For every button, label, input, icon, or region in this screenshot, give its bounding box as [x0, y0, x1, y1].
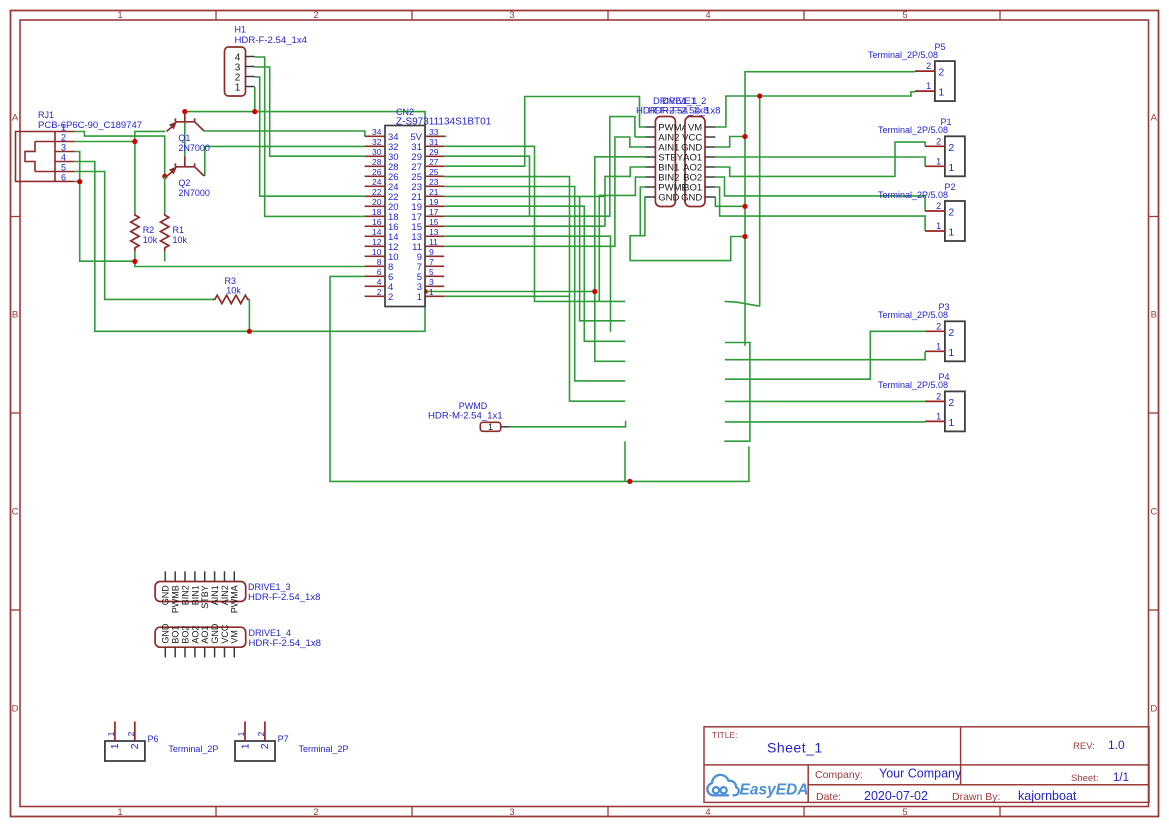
wire BIN1 to riser x605: [605, 167, 646, 226]
wire BIN2 to riser x599: [599, 177, 645, 301]
transistor Q1: [167, 114, 210, 154]
svg-text:10k: 10k: [173, 235, 188, 245]
wire junction to Q1 source: [135, 131, 165, 141]
svg-text:31: 31: [429, 137, 439, 147]
svg-text:2: 2: [948, 142, 954, 154]
wire R1 top lead: [164, 176, 166, 213]
svg-text:7: 7: [429, 257, 434, 267]
wire RJ1.4 to CN2 pin area: [75, 162, 425, 332]
svg-text:H1: H1: [235, 25, 247, 35]
svg-text:Terminal_2P/5.08: Terminal_2P/5.08: [868, 50, 938, 60]
svg-text:3: 3: [61, 142, 66, 152]
wire RJ1.6 net down to R2 bottom: [80, 182, 135, 262]
wire H1.3 to CN2 pin30: [255, 67, 365, 156]
svg-text:1: 1: [938, 87, 944, 99]
svg-text:PCB-6P6C-90_C189747: PCB-6P6C-90_C189747: [38, 120, 142, 131]
svg-text:21: 21: [429, 187, 439, 197]
svg-text:1: 1: [117, 10, 122, 21]
wire RJ1.6 stub: [75, 181, 80, 183]
svg-text:EasyEDA: EasyEDA: [740, 782, 809, 799]
svg-text:Your Company: Your Company: [879, 766, 962, 780]
svg-text:R1: R1: [173, 225, 185, 235]
wire CN2 pin13: [444, 236, 610, 332]
svg-text:Terminal_2P/5.08: Terminal_2P/5.08: [878, 380, 948, 390]
svg-text:3: 3: [429, 277, 434, 287]
svg-text:10k: 10k: [226, 285, 241, 295]
svg-text:D: D: [12, 704, 19, 715]
svg-text:GND: GND: [658, 193, 679, 204]
svg-text:3: 3: [509, 10, 514, 21]
terminal P3: [878, 302, 965, 361]
wire Q1 drain-right to CN2 pin34: [204, 131, 365, 136]
svg-text:1: 1: [106, 731, 116, 736]
svg-text:GND: GND: [681, 193, 702, 204]
svg-text:TITLE:: TITLE:: [712, 730, 738, 740]
wire diagonal jog: [725, 301, 760, 306]
svg-text:DRIVE1_3: DRIVE1_3: [248, 582, 291, 592]
svg-text:2: 2: [936, 136, 941, 146]
svg-text:30: 30: [372, 147, 382, 157]
svg-text:GND: GND: [161, 623, 171, 644]
svg-text:DRIVE1_4: DRIVE1_4: [249, 628, 292, 638]
svg-text:2: 2: [61, 132, 66, 142]
svg-text:20: 20: [372, 197, 382, 207]
svg-text:VM: VM: [230, 630, 240, 644]
svg-text:HDR-M-2.54_1x1: HDR-M-2.54_1x1: [428, 411, 503, 422]
svg-text:2020-07-02: 2020-07-02: [864, 789, 928, 803]
svg-text:5: 5: [61, 162, 66, 172]
wire CN2 pin25 down to dangle: [444, 177, 625, 402]
resistor R1: [161, 176, 188, 261]
wire RJ1.2 to junction: [75, 141, 135, 143]
svg-text:1: 1: [948, 417, 954, 429]
svg-text:1: 1: [936, 156, 941, 166]
svg-text:A: A: [12, 113, 19, 124]
svg-text:23: 23: [429, 177, 439, 187]
svg-text:4: 4: [61, 152, 66, 162]
svg-text:2: 2: [948, 397, 954, 409]
wire RJ1.1 to Q2 gate net: [75, 132, 165, 177]
svg-text:8: 8: [377, 257, 382, 267]
connector CN2: [365, 107, 492, 307]
wire AIN2 pin stub: [635, 136, 646, 138]
svg-text:1: 1: [236, 731, 246, 736]
terminal P6: [105, 722, 219, 762]
svg-text:33: 33: [429, 127, 439, 137]
svg-text:PWMD: PWMD: [459, 401, 488, 411]
svg-text:Terminal_2P/5.08: Terminal_2P/5.08: [878, 190, 948, 200]
svg-text:STBY: STBY: [200, 585, 210, 609]
wire R1 bottom lead: [164, 251, 166, 261]
terminal P4: [878, 372, 965, 431]
svg-text:5: 5: [902, 10, 907, 21]
header DRIVE1_4: [155, 623, 321, 657]
svg-text:1/1: 1/1: [1113, 772, 1129, 784]
wire H1.2 to CN2 pin22: [255, 77, 365, 196]
svg-text:13: 13: [429, 227, 439, 237]
svg-text:2: 2: [926, 61, 931, 71]
svg-text:2: 2: [936, 201, 941, 211]
wire to P4 pin2: [725, 400, 925, 402]
svg-text:AO2: AO2: [190, 626, 200, 644]
svg-text:BO2: BO2: [180, 626, 190, 644]
wire vertical x579 to dangle: [580, 196, 626, 320]
svg-text:1: 1: [235, 83, 241, 94]
wire DRIVE1_2 GND3 to vertical: [715, 137, 745, 148]
svg-text:Sheet:: Sheet:: [1071, 773, 1098, 784]
svg-text:9: 9: [429, 247, 434, 257]
wire BO2 to P2 pin2: [715, 177, 925, 211]
svg-text:17: 17: [429, 207, 439, 217]
svg-text:Terminal_2P: Terminal_2P: [299, 744, 349, 754]
svg-text:C: C: [1150, 507, 1157, 518]
wire CN2 pin15 run: [444, 225, 605, 227]
terminal P7: [235, 722, 349, 762]
svg-text:P6: P6: [148, 734, 159, 744]
svg-text:1: 1: [239, 743, 251, 749]
svg-text:2: 2: [313, 10, 318, 21]
wire node A291 link: [425, 291, 595, 293]
svg-text:P7: P7: [278, 734, 289, 744]
svg-text:4: 4: [705, 10, 710, 21]
header H1: [225, 25, 308, 97]
svg-text:BIN1: BIN1: [190, 585, 200, 605]
wire CN2 pin23 down to dangle: [444, 187, 625, 381]
wire BO1 to P2 pin1: [715, 187, 925, 231]
svg-text:Terminal_2P: Terminal_2P: [168, 744, 218, 754]
svg-text:27: 27: [429, 157, 439, 167]
svg-text:28: 28: [372, 157, 382, 167]
wire R3 right lead down: [248, 299, 250, 331]
svg-text:32: 32: [372, 137, 382, 147]
wire CN2 pin6 long bottom run: [330, 276, 749, 481]
resistor R3: [213, 276, 249, 304]
wire PWMB down: [640, 187, 645, 236]
svg-text:BO1: BO1: [171, 626, 181, 644]
wire to P3 pin1: [725, 352, 925, 360]
header PWMD: [428, 401, 509, 432]
frame row letters: [12, 113, 1158, 715]
wire PWMD pin: [509, 421, 625, 427]
wire vertical x759: [759, 96, 761, 306]
wire R2 top lead: [134, 142, 136, 214]
svg-text:2N7000: 2N7000: [178, 143, 210, 153]
svg-text:2: 2: [936, 321, 941, 331]
wire H1.1 down: [254, 87, 256, 112]
svg-text:R2: R2: [143, 225, 155, 235]
svg-text:GND: GND: [210, 623, 220, 644]
svg-text:Drawn By:: Drawn By:: [952, 791, 1000, 803]
wire Q2 right to CN2 pin32: [205, 146, 365, 176]
wire VM to P5 pin1: [715, 92, 915, 127]
svg-text:2: 2: [313, 807, 318, 818]
svg-text:6: 6: [61, 172, 66, 182]
svg-text:RJ1: RJ1: [38, 110, 54, 120]
frame column numbers: [117, 10, 907, 818]
svg-text:1: 1: [417, 292, 422, 303]
svg-text:2: 2: [936, 391, 941, 401]
terminal P1: [878, 117, 965, 176]
svg-text:2: 2: [938, 67, 944, 79]
svg-text:4: 4: [377, 277, 382, 287]
svg-text:BIN2: BIN2: [180, 585, 190, 605]
svg-text:1: 1: [948, 162, 954, 174]
wire AO1 to P1 pin1: [715, 157, 925, 166]
svg-text:12: 12: [372, 237, 382, 247]
svg-text:14: 14: [372, 227, 382, 237]
svg-text:1: 1: [936, 341, 941, 351]
wire Q1-Q2 middle link: [184, 122, 186, 157]
svg-text:AO1: AO1: [200, 626, 210, 644]
svg-text:1: 1: [109, 743, 121, 749]
header DRIVE1_3: [155, 571, 320, 613]
svg-text:VCC: VCC: [220, 624, 230, 644]
svg-text:5: 5: [429, 267, 434, 277]
svg-text:D: D: [1150, 704, 1157, 715]
svg-text:10: 10: [372, 247, 382, 257]
svg-text:GND: GND: [161, 585, 171, 606]
svg-text:HDR-F-2.54_1x8: HDR-F-2.54_1x8: [249, 638, 322, 649]
wire DRIVE1_2 GND8 to vertical: [715, 197, 745, 206]
transistor Q2: [167, 157, 210, 199]
svg-text:2: 2: [377, 287, 382, 297]
svg-text:1: 1: [117, 807, 122, 818]
svg-text:A: A: [1151, 113, 1158, 124]
svg-text:DRIVE1_2: DRIVE1_2: [662, 95, 706, 106]
svg-text:1: 1: [936, 411, 941, 421]
svg-text:2: 2: [388, 292, 393, 303]
svg-text:1: 1: [429, 287, 434, 297]
wire H1.4 to CN2 pin18: [255, 57, 365, 216]
title block: [704, 727, 1149, 803]
svg-text:PWMA: PWMA: [230, 585, 240, 613]
svg-text:5: 5: [902, 807, 907, 818]
wire AO2 to P1 pin2: [715, 142, 925, 176]
svg-text:HDR-F-2.54_1x4: HDR-F-2.54_1x4: [235, 35, 308, 46]
svg-text:1: 1: [948, 227, 954, 239]
svg-text:HDR-F-2.54_1x8: HDR-F-2.54_1x8: [648, 106, 721, 117]
resistor R2: [131, 213, 158, 251]
wire CN2 pin17 to AIN2 riser: [444, 117, 635, 217]
header DRIVE1_1: [636, 95, 709, 207]
svg-text:Date:: Date:: [816, 791, 841, 803]
svg-text:2: 2: [259, 743, 271, 749]
connector RJ1: [16, 110, 143, 182]
wire CN2 pin31 down to dangle: [444, 146, 625, 301]
wire CN2 pin21 run: [444, 195, 605, 197]
svg-text:1: 1: [488, 422, 493, 432]
svg-text:10k: 10k: [143, 235, 158, 245]
svg-text:2N7000: 2N7000: [178, 188, 210, 198]
svg-text:kajornboat: kajornboat: [1018, 789, 1077, 803]
svg-text:Q2: Q2: [178, 178, 190, 188]
svg-text:3: 3: [509, 807, 514, 818]
svg-text:Q1: Q1: [178, 133, 190, 143]
svg-text:AIN2: AIN2: [220, 585, 230, 605]
terminal P2: [878, 182, 965, 241]
svg-text:6: 6: [377, 267, 382, 277]
wire P5 pin2 long vertical: [745, 72, 915, 346]
svg-text:1: 1: [926, 81, 931, 91]
svg-text:34: 34: [372, 127, 382, 137]
wire CN2 pin29 down: [444, 156, 529, 216]
wire CN2 pin27 to PWMA: [444, 97, 645, 167]
svg-text:29: 29: [429, 147, 439, 157]
svg-text:Company:: Company:: [815, 769, 863, 781]
svg-text:2: 2: [126, 731, 136, 736]
svg-text:Sheet_1: Sheet_1: [767, 740, 823, 756]
svg-text:CN2: CN2: [396, 107, 414, 117]
svg-text:2: 2: [129, 743, 141, 749]
EasyEDA logo: [707, 775, 808, 799]
svg-text:2: 2: [948, 207, 954, 219]
svg-text:16: 16: [372, 217, 382, 227]
svg-text:Terminal_2P/5.08: Terminal_2P/5.08: [878, 125, 948, 135]
wire to P3 pin2: [725, 331, 925, 379]
svg-text:Z-S97311134S1BT01: Z-S97311134S1BT01: [396, 117, 492, 128]
svg-text:1.0: 1.0: [1108, 738, 1125, 752]
svg-text:REV:: REV:: [1073, 741, 1095, 752]
svg-text:25: 25: [429, 167, 439, 177]
svg-text:22: 22: [372, 187, 382, 197]
svg-text:15: 15: [429, 217, 439, 227]
svg-text:2: 2: [256, 731, 266, 736]
wire to P4 pin1: [725, 421, 925, 423]
terminal P5: [868, 42, 955, 101]
wire RJ1.3 down: [75, 152, 80, 182]
wire CN2 pin11 to AIN1: [444, 137, 645, 246]
wire Q1 top net to CN2 pin33: [185, 112, 447, 137]
wire vertical stub at x625: [624, 441, 626, 481]
svg-text:4: 4: [705, 807, 710, 818]
svg-text:PWMB: PWMB: [171, 585, 181, 613]
svg-text:C: C: [12, 507, 19, 518]
svg-text:B: B: [12, 310, 18, 321]
svg-text:18: 18: [372, 207, 382, 217]
wire RJ1.5 to R3 left: [75, 172, 213, 300]
svg-text:24: 24: [372, 177, 382, 187]
wire CN2 pin19 to dangle: [444, 206, 625, 341]
svg-text:HDR-F-2.54_1x8: HDR-F-2.54_1x8: [248, 592, 321, 603]
svg-text:19: 19: [429, 197, 439, 207]
wire DRIVE1_1 GND loop: [630, 197, 745, 261]
wire R2 bottom to CN2 pin8: [135, 251, 365, 266]
svg-text:AIN1: AIN1: [210, 585, 220, 605]
wire CN2 pin1: [444, 295, 569, 297]
svg-text:11: 11: [429, 237, 438, 247]
wire mid branch upper: [724, 343, 750, 442]
svg-text:2: 2: [948, 327, 954, 339]
svg-text:Terminal_2P/5.08: Terminal_2P/5.08: [878, 310, 948, 320]
wire STBY net: [595, 157, 646, 361]
svg-text:1: 1: [936, 221, 941, 231]
header DRIVE1_2: [648, 95, 721, 207]
svg-text:B: B: [1151, 310, 1157, 321]
svg-text:26: 26: [372, 167, 382, 177]
svg-text:1: 1: [948, 347, 954, 359]
